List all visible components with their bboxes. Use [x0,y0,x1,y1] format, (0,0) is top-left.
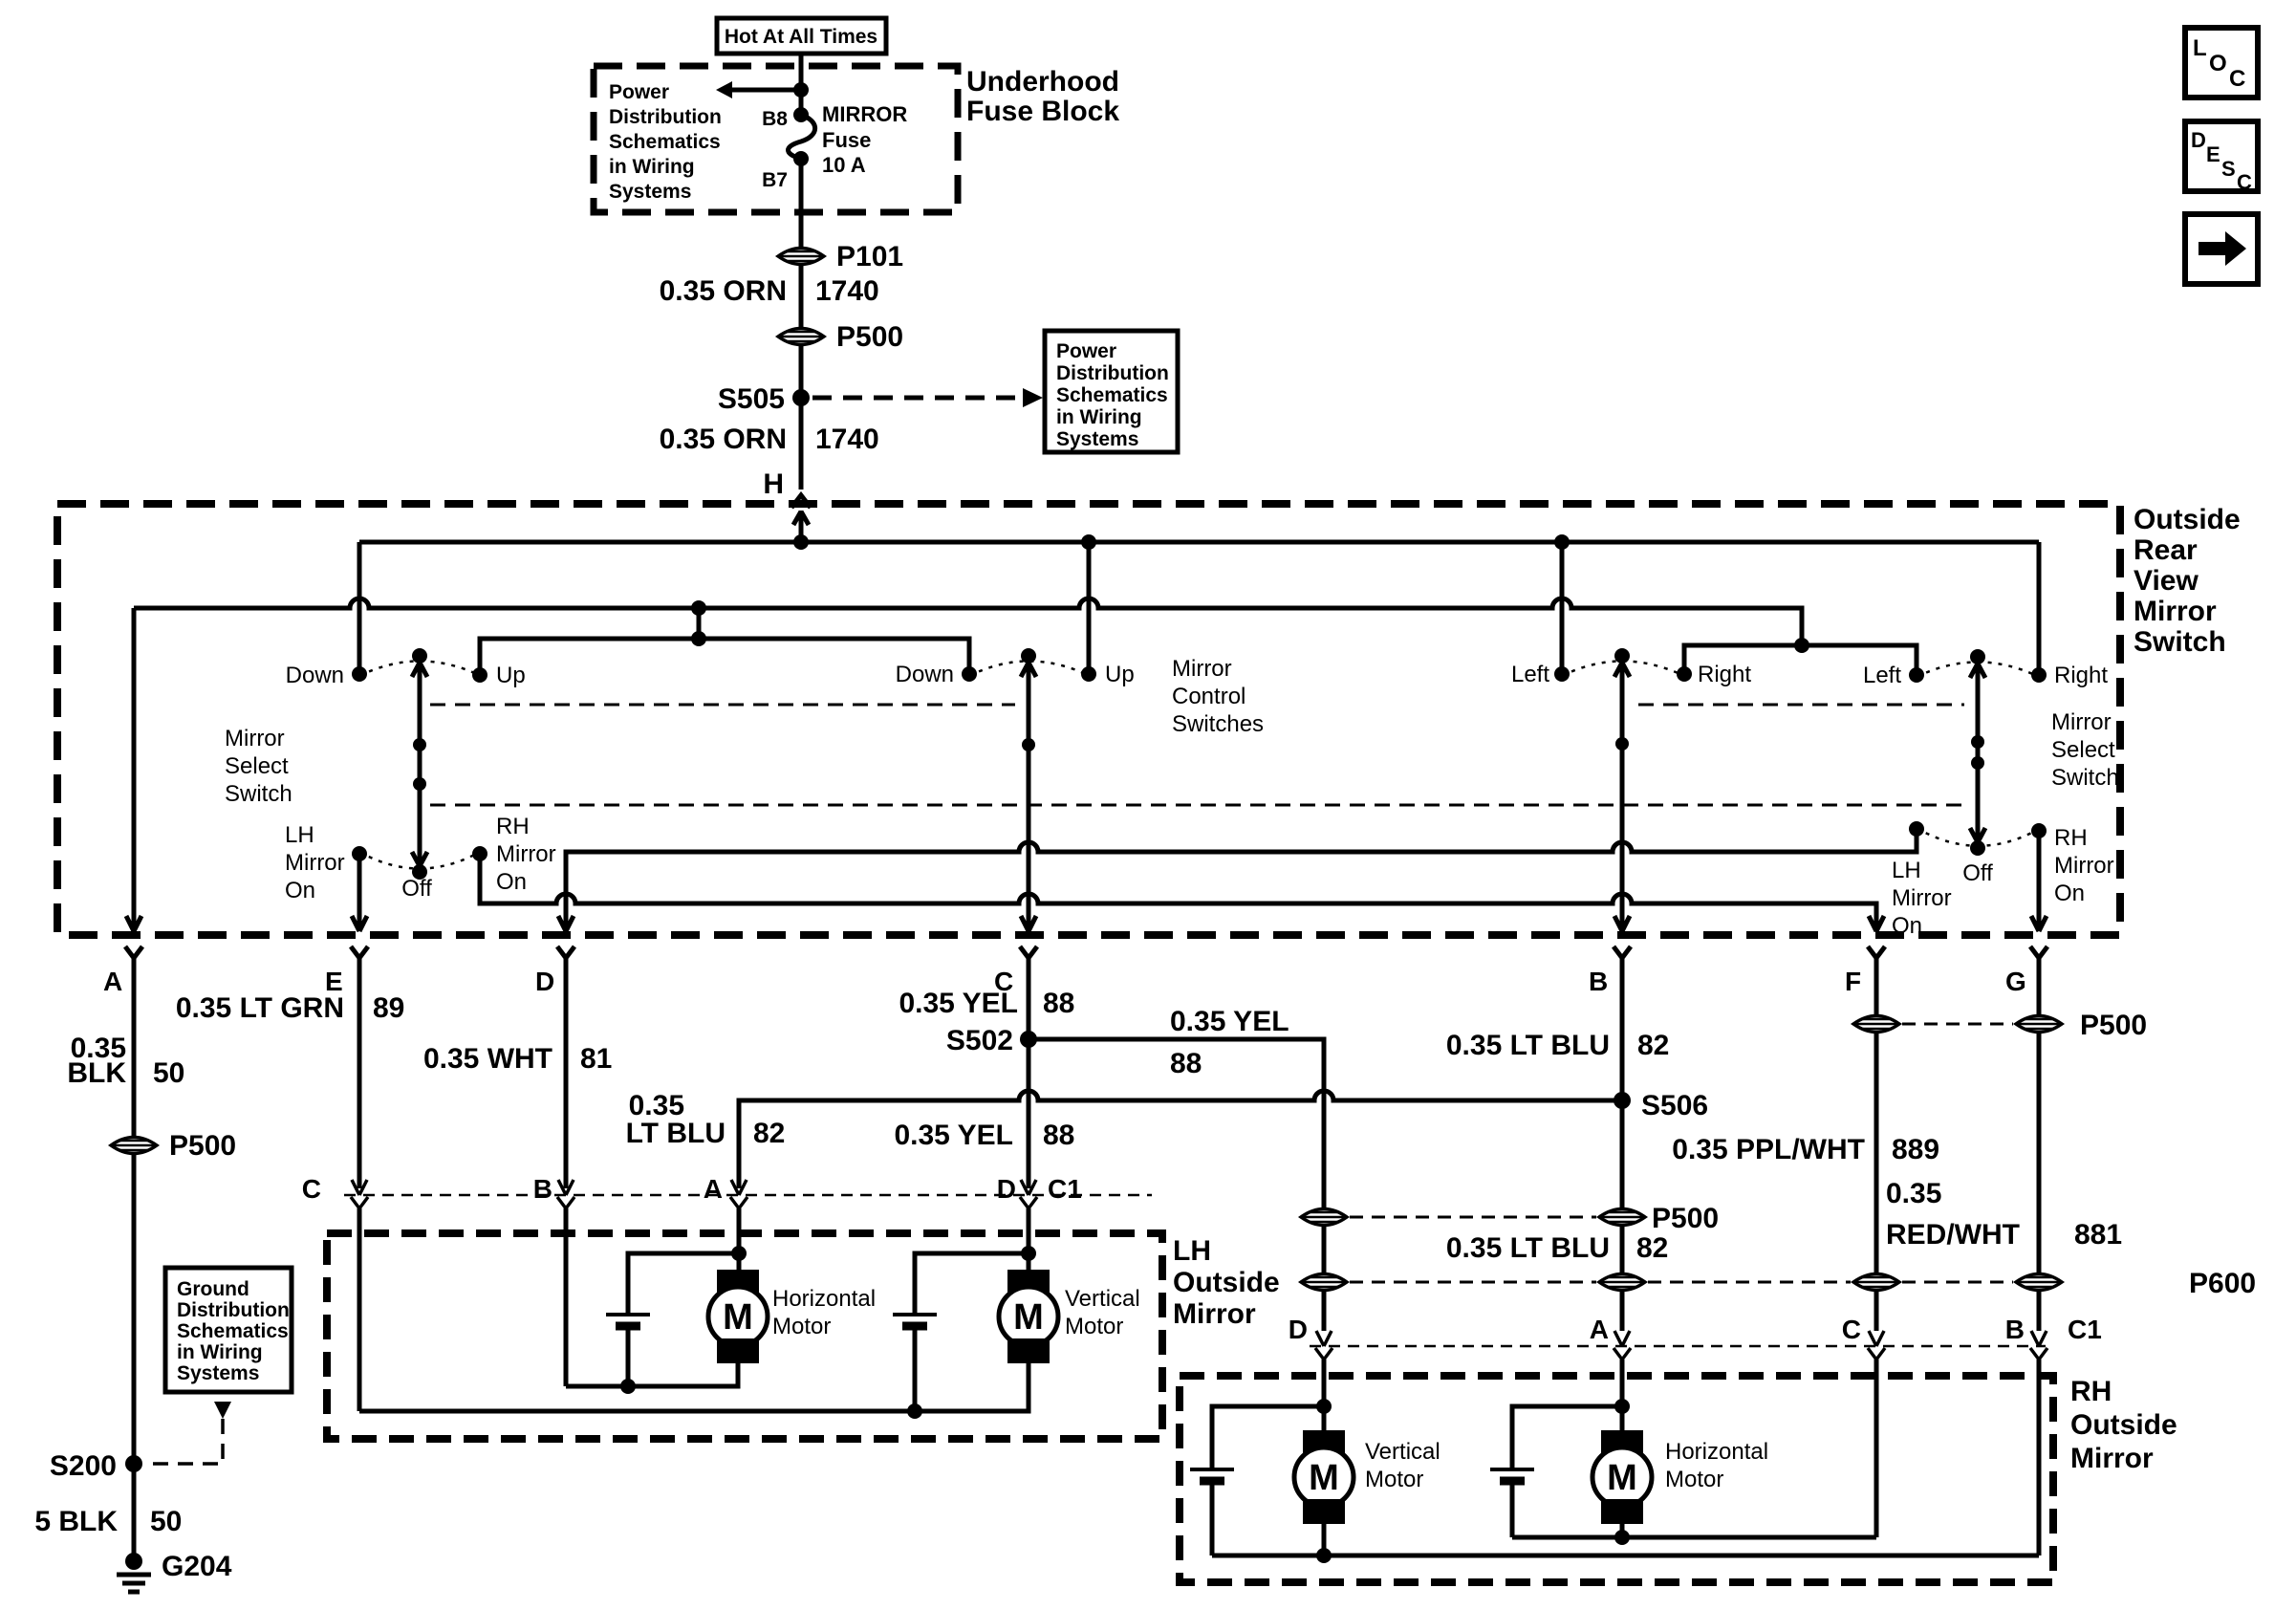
RH mirror connector row dashed line [1310,1345,2046,1348]
svg-text:Power: Power [1056,340,1116,362]
svg-text:Distribution: Distribution [1056,362,1169,384]
bus wire 3 (Up1 to Down2) [480,639,969,675]
svg-text:Fuse: Fuse [822,128,871,152]
LH mirror pin B [533,1174,574,1386]
svg-text:Up: Up [496,663,526,688]
LOC box [2185,28,2258,98]
svg-text:Mirror: Mirror [2054,853,2114,879]
wire 0.35 YEL 88 (C column lower) [894,1120,1074,1151]
svg-text:B: B [533,1174,552,1204]
wire 0.35 LT BLU 82 (B column) [1446,1014,1670,1207]
svg-text:Schematics: Schematics [1056,384,1168,406]
vertical motor (LH mirror) [999,1270,1140,1363]
svg-text:Schematics: Schematics [609,131,721,153]
svg-text:Left: Left [1863,663,1901,688]
svg-text:Off: Off [401,876,432,902]
control switch shaft (B column upper) [1614,663,1630,931]
svg-text:82: 82 [753,1118,785,1149]
LH Outside Mirror title [1173,1235,1280,1330]
RH mirror pin D [1289,1292,1332,1406]
svg-text:Mirror: Mirror [1172,656,1232,682]
LH Outside Mirror dashed box [327,1233,1162,1439]
battery (LH vertical motor) [893,1315,937,1411]
svg-text:0.35 YEL: 0.35 YEL [1170,1006,1289,1037]
svg-text:Mirror: Mirror [2134,596,2217,627]
terminal F exit [1845,916,1885,1014]
svg-text:P500: P500 [1652,1203,1719,1234]
svg-text:1740: 1740 [815,424,879,455]
svg-text:Mirror: Mirror [496,841,556,867]
wire RH Mirror On (right) to terminal G [2037,831,2042,931]
svg-text:Up: Up [1105,662,1135,687]
junction node (pin A to horizontal motor RH) [1512,1399,1630,1469]
svg-text:C1: C1 [2068,1315,2102,1344]
svg-text:Mirror: Mirror [285,850,345,876]
splice S200 [50,1450,142,1482]
bus wire 2 from terminal A [134,598,1802,645]
svg-text:in Wiring: in Wiring [1056,406,1142,428]
Power Distribution Schematics box (right) [1045,331,1178,452]
svg-text:RED/WHT: RED/WHT [1886,1219,2020,1251]
right select switch shaft [1970,664,1985,844]
RH mirror pin B C1 [2005,1292,2102,1556]
svg-text:0.35 YEL: 0.35 YEL [899,988,1018,1019]
svg-text:LH: LH [1173,1235,1211,1267]
wire 0.35 ORN 1740 (lower) [660,398,879,490]
wire 0.35 LT BLU 82 (pin A drop) [626,1090,786,1149]
svg-text:RH: RH [496,814,530,839]
wire bus1 to Left contact (control sw 3) [1560,542,1565,674]
svg-text:Vertical: Vertical [1365,1439,1440,1465]
svg-text:0.35 PPL/WHT: 0.35 PPL/WHT [1672,1134,1865,1165]
svg-text:C: C [2237,170,2252,194]
wire 0.35 RED/WHT 881 (G column) [1886,1033,2122,1273]
svg-text:B: B [2005,1315,2025,1344]
wire horizontal motor to pin C bus [1512,1524,1876,1545]
svg-text:S200: S200 [50,1450,117,1482]
svg-text:D: D [1289,1315,1308,1344]
connector P600 row [1301,1268,2256,1299]
svg-text:Mirror: Mirror [2070,1443,2154,1474]
svg-text:Motor: Motor [1065,1314,1123,1339]
svg-text:0.35 ORN: 0.35 ORN [660,424,787,455]
svg-text:C1: C1 [1048,1174,1082,1204]
fuse MIRROR 10 A [789,102,908,177]
H feed entering switch [793,511,809,542]
svg-text:889: 889 [1892,1134,1939,1165]
mirror control switch (up/down) rocker [896,648,1135,687]
battery (RH horizontal motor) [1490,1469,1534,1537]
svg-text:D: D [2191,128,2206,152]
svg-text:88: 88 [1043,988,1074,1019]
wire P500 to P600 (D pin RH) [1322,1226,1327,1273]
terminal D exit [535,916,574,1014]
wire S506 to LH mirror pin A [739,1091,1622,1188]
stub bus2 to bus3 [691,608,706,646]
horizontal motor (RH mirror) [1592,1430,1768,1524]
svg-text:Switch: Switch [2134,626,2226,658]
svg-text:Systems: Systems [177,1362,259,1384]
svg-text:M: M [1013,1297,1044,1338]
svg-text:Systems: Systems [609,181,691,203]
svg-text:50: 50 [153,1057,184,1089]
junction node (pin D C1 to vertical motor) [915,1246,1036,1315]
svg-text:On: On [2054,881,2085,906]
svg-text:B: B [1589,967,1608,996]
svg-text:88: 88 [1170,1048,1202,1079]
svg-text:P101: P101 [836,241,903,272]
dashed reference arrow from S505 [812,388,1043,407]
wire RH Mirror On (left) to terminal F [480,854,1876,931]
terminal B8 [762,107,809,130]
RH Outside Mirror title [2070,1376,2177,1474]
svg-text:Vertical: Vertical [1065,1286,1140,1312]
svg-text:S: S [2221,157,2236,181]
wire 0.35 YEL 88 (S502 branch) [1029,1006,1324,1207]
svg-text:Mirror: Mirror [1892,885,1952,911]
svg-text:A: A [704,1174,723,1204]
svg-text:in Wiring: in Wiring [177,1341,263,1363]
svg-text:0.35: 0.35 [1886,1178,1941,1209]
svg-text:G204: G204 [162,1551,232,1582]
svg-text:Outside: Outside [2134,504,2241,535]
terminal C exit [994,916,1037,1014]
horizontal motor (LH mirror) [708,1270,876,1363]
mirror select switch rocker (right) [1863,649,2108,688]
LH mirror pin A [704,1174,747,1253]
LH mirror pin C [302,1174,368,1411]
svg-text:Distribution: Distribution [609,106,722,128]
Underhood Fuse Block title [966,66,1119,127]
wire 0.35 BLK 50 (A column) [67,1014,184,1137]
svg-text:Mirror: Mirror [225,726,285,751]
wire 0.35 LT BLU 82 (A pin RH) [1446,1226,1669,1273]
wire bus1 to Down contact (left select) [357,542,362,674]
Hot At All Times box [717,18,886,54]
svg-text:Down: Down [896,662,954,687]
junction node (pin D to vertical motor RH) [1212,1399,1332,1469]
wire bus1 to Up contact (control sw 2) [1087,542,1092,673]
svg-text:Mirror: Mirror [2051,709,2112,735]
vertical motor (RH mirror) [1294,1430,1440,1524]
svg-text:Distribution: Distribution [177,1299,290,1321]
svg-text:Horizontal: Horizontal [1665,1439,1768,1465]
bus wire 4 (Right3 to Left4) [1684,638,1917,675]
svg-text:Control: Control [1172,684,1245,709]
junction node (pin A to horizontal motor) [628,1246,747,1315]
svg-text:M: M [723,1297,753,1338]
ground G204 [117,1551,232,1592]
svg-text:0.35 WHT: 0.35 WHT [423,1043,552,1075]
svg-text:Mirror: Mirror [1173,1298,1256,1330]
LH mirror connector row dashed line [344,1194,1152,1197]
wire 0.35 YEL 88 (C column upper) [899,988,1074,1188]
svg-text:Right: Right [2054,663,2108,688]
svg-text:82: 82 [1637,1030,1669,1061]
forward arrow box [2185,214,2258,284]
svg-text:Power: Power [609,81,669,103]
svg-text:B8: B8 [762,108,788,130]
svg-text:H: H [763,468,784,500]
svg-text:Right: Right [1698,662,1751,687]
svg-text:S505: S505 [718,383,785,415]
wire 0.35 LT GRN 89 (E column) [176,992,405,1188]
connector P500 (ground path) [111,1130,236,1162]
svg-text:0.35 YEL: 0.35 YEL [894,1120,1013,1151]
connector P500 (F/G row) [1853,1010,2147,1041]
splice S506 [1614,1090,1708,1121]
splice S505 [718,383,810,415]
svg-text:C: C [2229,66,2245,92]
terminal B exit [1589,916,1631,1014]
battery (LH horizontal motor) [606,1315,650,1386]
terminal B7 [762,151,809,191]
svg-text:Outside: Outside [2070,1409,2177,1441]
connector P500 (feed) [778,321,903,353]
svg-text:81: 81 [580,1043,612,1075]
svg-text:Select: Select [2051,737,2115,763]
wire LH Mirror On (left) to terminal E [357,854,362,931]
svg-text:5 BLK: 5 BLK [34,1506,118,1537]
svg-text:Horizontal: Horizontal [772,1286,876,1312]
svg-text:E: E [2206,142,2220,166]
svg-text:1740: 1740 [815,275,879,307]
RH mirror pin A [1590,1292,1631,1406]
mechanical coupling dashed line (upper) [430,704,1964,707]
mirror control switch (left/right) rocker [1511,648,1751,687]
svg-text:P500: P500 [836,321,903,353]
svg-text:S502: S502 [946,1025,1013,1056]
wire 0.35 PPL/WHT 889 (F column) [1672,1014,1939,1273]
arrow to power distribution (left) [716,81,809,98]
svg-text:On: On [496,869,527,895]
Mirror Select Switch label (left) [225,726,292,807]
svg-text:Outside: Outside [1173,1267,1280,1298]
connector P500 (D/A row) [1301,1203,1719,1234]
svg-text:G: G [2005,967,2026,996]
connector P101 [778,241,903,272]
mechanical coupling dashed line (lower) [430,804,1964,807]
svg-text:P500: P500 [2080,1010,2147,1041]
wire 0.35 ORN 1740 [660,265,879,328]
svg-text:On: On [1892,913,1922,939]
svg-text:MIRROR: MIRROR [822,102,907,126]
wire from Hot At All Times into fuse block [799,54,804,115]
svg-text:C: C [1842,1315,1861,1344]
svg-text:10 A: 10 A [822,153,866,177]
RH mirror pin C [1842,1292,1885,1537]
svg-text:Left: Left [1511,662,1549,687]
right select switch lower contacts [1892,821,2114,939]
battery (RH vertical motor) [1190,1469,1234,1556]
svg-text:P600: P600 [2189,1268,2256,1299]
wire A column (inside switch) [132,608,137,931]
svg-text:Fuse Block: Fuse Block [966,96,1119,127]
svg-text:50: 50 [150,1506,182,1537]
svg-text:D: D [997,1174,1016,1204]
RH Outside Mirror dashed box [1180,1376,2053,1582]
svg-text:B7: B7 [762,169,788,191]
svg-text:881: 881 [2074,1219,2122,1251]
svg-text:Switches: Switches [1172,711,1264,737]
wire bus1 to Right contact (right select) [2037,542,2042,675]
svg-text:89: 89 [373,992,404,1024]
svg-text:D: D [535,967,554,996]
wire 0.35 WHT 81 (D column) [423,1014,612,1188]
svg-text:Systems: Systems [1056,428,1138,450]
svg-text:Underhood: Underhood [966,66,1119,98]
svg-text:0.35 LT GRN: 0.35 LT GRN [176,992,344,1024]
left select switch lower contacts [285,814,556,903]
svg-text:Switch: Switch [225,781,292,807]
wire LH Mirror On (right) to terminal D [566,829,1917,931]
svg-text:View: View [2134,565,2199,597]
svg-text:A: A [1590,1315,1609,1344]
svg-text:BLK: BLK [67,1057,126,1089]
svg-text:P500: P500 [169,1130,236,1162]
bus wire from H (power rail) [359,534,2039,550]
svg-text:RH: RH [2070,1376,2112,1407]
Mirror Select Switch label (right) [2051,709,2119,791]
svg-text:O: O [2209,51,2227,76]
wire vertical motor to bottom bus [1322,1524,1327,1556]
LH mirror pin D C1 [997,1174,1082,1253]
wire pin B to horizontal motor bottom [566,1363,738,1394]
svg-text:Switch: Switch [2051,765,2119,791]
svg-text:LT BLU: LT BLU [626,1118,726,1149]
svg-text:LH: LH [1892,858,1921,883]
svg-text:Rear: Rear [2134,534,2198,566]
terminal E exit [325,916,368,1014]
Power Distribution Schematics note (in fuse block) [609,81,722,203]
svg-text:M: M [1309,1458,1339,1498]
wire to S505 [799,345,804,398]
wire P500 to S200 [132,1154,137,1464]
svg-text:88: 88 [1043,1120,1074,1151]
Outside Rear View Mirror Switch title [2134,504,2241,658]
svg-text:Motor: Motor [1665,1467,1723,1492]
svg-text:Down: Down [286,663,344,688]
svg-text:0.35 ORN: 0.35 ORN [660,275,787,307]
svg-text:S506: S506 [1641,1090,1708,1121]
svg-text:0.35 LT BLU: 0.35 LT BLU [1446,1232,1610,1264]
connector chevron at H [791,495,811,508]
svg-text:LH: LH [285,822,314,848]
RH mirror bottom bus to pin B C1 [1212,1548,2039,1563]
wire pin C to vertical motor bottom [359,1363,1029,1419]
svg-text:in Wiring: in Wiring [609,156,695,178]
reference triangle and dashed link to S200 [145,1402,231,1464]
mirror select switch rocker (left) [286,648,526,688]
terminal G exit [2005,916,2047,1014]
left select switch shaft [412,663,427,868]
svg-text:C: C [302,1174,321,1204]
svg-text:On: On [285,878,315,903]
svg-text:Ground: Ground [177,1278,249,1300]
svg-text:RH: RH [2054,825,2088,851]
svg-text:L: L [2193,35,2207,61]
svg-text:Motor: Motor [772,1314,831,1339]
svg-text:Off: Off [1962,860,1993,886]
terminal A exit [103,916,142,1014]
Outside Rear View Mirror Switch dashed box [57,504,2120,935]
svg-text:Hot At All Times: Hot At All Times [725,26,877,48]
Mirror Control Switches label [1172,656,1264,737]
wire 5 BLK 50 [34,1464,182,1561]
Ground Distribution Schematics box [165,1268,292,1392]
svg-text:Select: Select [225,753,289,779]
splice S502 [946,1025,1037,1056]
svg-text:Schematics: Schematics [177,1320,289,1342]
svg-text:F: F [1845,967,1861,996]
DESC box [2185,121,2258,194]
Underhood Fuse Block dashed box [594,66,958,212]
svg-text:Motor: Motor [1365,1467,1423,1492]
svg-text:82: 82 [1636,1232,1668,1264]
wire B7 to P101 [799,159,804,248]
svg-text:0.35 LT BLU: 0.35 LT BLU [1446,1030,1610,1061]
svg-text:M: M [1607,1458,1637,1498]
svg-text:A: A [103,967,122,996]
control switch shaft (C column upper) [1021,663,1036,931]
